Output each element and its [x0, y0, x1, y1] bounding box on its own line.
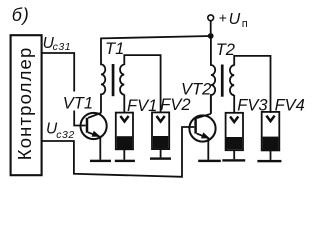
transistor VT2 [189, 96, 215, 160]
wire T2 secondary bottom to FV3 [233, 95, 235, 113]
svg-text:c32: c32 [56, 129, 75, 141]
top rail +Un [101, 36, 211, 38]
svg-text:VT1: VT1 [63, 95, 93, 113]
svg-text:+: + [219, 9, 227, 25]
svg-text:U: U [229, 11, 241, 28]
wire Uc31 to VT1 base [42, 53, 86, 126]
VT2 emitter arrowhead [201, 132, 210, 138]
wire T1 secondary bottom to FV1 [123, 94, 125, 112]
T2 core [221, 65, 224, 97]
wire T1 secondary top to FV2 [124, 55, 160, 113]
terminal +Un [208, 15, 214, 21]
VT1 emitter arrowhead [92, 131, 101, 137]
transistor VT1 label [61, 92, 95, 111]
arrester FV3 [222, 113, 245, 162]
T2 primary winding [211, 38, 215, 114]
svg-text:FV2: FV2 [160, 96, 190, 114]
svg-text:VT2: VT2 [181, 80, 211, 98]
svg-text:Контроллер: Контроллер [14, 47, 35, 161]
arrester FV2 [150, 112, 171, 159]
svg-text:б): б) [12, 5, 30, 25]
junction dot [208, 33, 214, 39]
svg-text:T1: T1 [105, 40, 124, 58]
wire Uc32 to VT2 base (bottom run) [42, 127, 195, 177]
VT2 ground bar [198, 160, 221, 162]
controller box [11, 35, 42, 175]
arrester FV1 [115, 113, 135, 162]
T1 secondary winding [120, 65, 124, 95]
T1 primary winding [101, 38, 105, 113]
VT1 ground bar [90, 160, 111, 162]
T2 secondary winding [230, 65, 234, 95]
arrester FV4 [257, 112, 281, 162]
transistor VT1 [81, 113, 107, 160]
T1 core [112, 64, 115, 96]
svg-text:c31: c31 [53, 41, 72, 53]
svg-text:T2: T2 [216, 41, 235, 59]
wire T2 secondary top to FV4 [234, 56, 270, 113]
svg-text:п: п [242, 18, 248, 30]
